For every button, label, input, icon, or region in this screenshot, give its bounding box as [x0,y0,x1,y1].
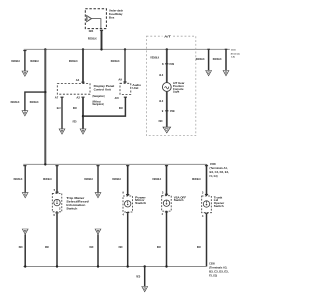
VSA OFF switch column [152,165,168,196]
svg-text:F3, G3): F3, G3) [209,273,217,277]
wire branch to arrow col25 [11,92,46,116]
wire bus to pin A9 [111,48,127,83]
svg-text:4: 4 [202,214,204,218]
svg-text:RED/BLK: RED/BLK [11,59,20,63]
power mirror switch column [112,165,129,196]
svg-text:Navigation): Navigation) [93,102,104,106]
svg-text:C589: C589 [170,109,175,113]
pin A7 wire to arrow BLU [55,96,65,134]
svg-text:RED/BLK: RED/BLK [30,59,39,63]
svg-text:4: 4 [122,213,124,217]
svg-text:RED/BLK: RED/BLK [88,36,97,40]
col25 mid wire to arrow [14,165,29,198]
wire main feed col45 [30,48,46,164]
terminal N24 [89,29,103,33]
lamp A/T gear position console light [162,81,185,93]
node col25 top: wire to connector arrow [11,50,28,76]
terminal 8 C589 [159,62,174,77]
svg-text:3: 3 [162,190,164,194]
svg-text:8: 8 [162,62,164,66]
svg-text:Control Unit: Control Unit [94,87,111,91]
svg-text:RED/BLK: RED/BLK [69,59,78,63]
fuse box Under-dash Fuse/Relay Box [85,9,106,29]
junctions on ground bus [24,265,168,267]
svg-text:RED/BLK: RED/BLK [196,57,205,61]
svg-text:RED/BLK: RED/BLK [192,177,201,181]
svg-text:9: 9 [122,191,124,195]
power mirror switch [123,195,147,212]
trunk lid opener switch column [192,164,208,196]
wire bus to pin A4 [69,48,85,83]
svg-text:RED/BLK: RED/BLK [11,100,20,104]
svg-text:BLU: BLU [57,106,61,110]
svg-text:Switch: Switch [174,198,184,202]
ground bus [23,266,206,268]
svg-text:RED: RED [119,245,123,249]
junction fuse/bus [100,48,102,50]
svg-text:A4: A4 [76,78,80,82]
svg-text:RED: RED [89,245,93,249]
svg-text:9: 9 [162,109,164,113]
trip switch bottom wire [45,212,59,266]
svg-text:A7: A7 [55,96,59,100]
wire fuse to bus RED/BLK [88,30,102,50]
audio unit [120,83,141,94]
svg-text:RED/BLK: RED/BLK [213,57,222,61]
trunk bottom wire [197,213,208,267]
svg-text:N24: N24 [89,29,94,33]
svg-text:A15: A15 [115,96,120,100]
power bus top [24,48,230,50]
svg-text:(Navigation): (Navigation) [93,94,105,98]
svg-text:(Terminals: (Terminals [231,53,241,55]
wire light to ground [159,91,175,127]
svg-text:RED/BLK: RED/BLK [112,177,121,181]
svg-text:RED/BLK: RED/BLK [152,177,161,181]
trip meter switch column [43,165,59,193]
junction feed/bus2 [44,163,46,165]
power mirror bottom wire [119,212,130,267]
svg-text:RED/BLK: RED/BLK [84,177,93,181]
VSA bottom wire [157,211,168,266]
col98 arrow in to ground bus [89,229,101,267]
svg-text:RED: RED [159,119,163,123]
svg-text:BLK: BLK [159,99,163,103]
svg-text:RED: RED [19,245,23,249]
trip meter switch [52,193,89,211]
bus 2 [23,163,206,165]
svg-text:RED: RED [197,245,201,249]
svg-text:RED/BLK: RED/BLK [14,177,23,181]
svg-text:RED/BLK: RED/BLK [43,177,52,181]
label C505 [209,262,229,278]
wire C511 terminal 1 [196,49,212,76]
svg-text:RED: RED [119,106,123,110]
wire bus to A/T light [150,48,168,82]
pin A15 wire RED joining junction [83,96,127,116]
svg-text:C589: C589 [169,62,174,66]
col98 wire to arrow [84,165,101,198]
svg-text:RED: RED [136,274,140,278]
svg-text:Light: Light [173,90,179,94]
svg-text:Switch: Switch [66,206,77,210]
svg-text:RED: RED [73,106,77,110]
svg-text:6: 6 [53,213,55,217]
svg-text:BLK: BLK [159,73,163,77]
svg-text:Switch: Switch [135,201,146,205]
svg-text:F4, G4): F4, G4) [210,174,218,178]
svg-text:RED/BLK: RED/BLK [150,55,159,59]
svg-text:A9: A9 [118,78,122,82]
pin A2 wire RED to arrow [73,96,86,134]
display panel control unit [57,84,114,106]
label Under-dash Fuse/Relay Box [109,8,123,19]
svg-text:Box: Box [109,15,115,19]
trunk lid opener switch [202,196,225,213]
svg-text:A/T: A/T [164,35,171,39]
label C508 [210,162,230,178]
svg-text:C511: C511 [231,49,236,51]
junction branch col45 [44,91,46,93]
svg-text:1-8): 1-8) [231,57,235,59]
svg-text:3: 3 [202,191,204,195]
ground drop wire [136,267,147,292]
svg-text:RED/BLK: RED/BLK [30,100,39,104]
svg-text:A2: A2 [76,96,80,100]
svg-text:RED: RED [45,245,49,249]
VSA OFF switch [162,195,186,211]
A/T option box [147,34,196,136]
svg-text:4: 4 [162,212,164,216]
wire C511 terminal 2 [213,49,229,76]
svg-text:RED: RED [157,245,161,249]
svg-text:Unit: Unit [132,86,138,90]
svg-text:RED/BLK: RED/BLK [111,59,120,63]
svg-text:5: 5 [54,188,56,192]
svg-text:Switch: Switch [214,204,224,208]
svg-text:RED: RED [73,119,77,123]
svg-text:2: 2 [59,207,61,211]
label C511 [231,49,241,58]
ground in A/T [163,127,171,133]
col25 arrow in to ground bus [19,229,28,267]
